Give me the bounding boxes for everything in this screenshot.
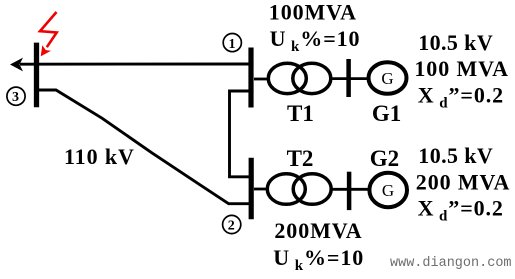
svg-text:T2: T2 bbox=[287, 146, 314, 171]
busbar 1 bbox=[248, 48, 253, 108]
svg-text:G2: G2 bbox=[370, 146, 399, 171]
busbar 3 (faulted 110kV bus) bbox=[34, 43, 39, 108]
svg-text:1: 1 bbox=[229, 37, 237, 52]
svg-text:100 MVA: 100 MVA bbox=[414, 56, 509, 81]
svg-text:10.5 kV: 10.5 kV bbox=[418, 143, 493, 168]
generator G2 bbox=[369, 173, 407, 207]
svg-text:X d”=0.2: X d”=0.2 bbox=[418, 196, 504, 225]
wire: 110 kV line bus 3 to bus 2 (stub, diagonal, stub) bbox=[36, 90, 250, 204]
svg-text:T1: T1 bbox=[287, 101, 314, 126]
wire: transformer T2 to generator G2 bbox=[331, 188, 368, 191]
generator bus bar G1 bbox=[346, 59, 351, 97]
svg-text:G1: G1 bbox=[372, 101, 401, 126]
node 1 circled label bbox=[223, 34, 241, 52]
svg-text:200MVA: 200MVA bbox=[274, 218, 362, 243]
node 2 circled label bbox=[223, 215, 241, 233]
generator G1 bbox=[369, 62, 407, 94]
fault lightning bolt with arrow bbox=[40, 12, 57, 56]
busbar 2 bbox=[249, 158, 254, 220]
wire: bus 2 to transformer T2 bbox=[254, 188, 268, 191]
svg-text:100MVA: 100MVA bbox=[269, 0, 357, 25]
svg-text:G: G bbox=[381, 69, 393, 88]
svg-text:U k%=10: U k%=10 bbox=[270, 26, 361, 55]
wire: tie link between bus 1 and bus 2 bbox=[230, 91, 251, 177]
svg-text:200 MVA: 200 MVA bbox=[416, 170, 511, 195]
svg-text:2: 2 bbox=[228, 219, 236, 234]
node 3 circled label bbox=[7, 87, 25, 105]
svg-text:www.diangon.com: www.diangon.com bbox=[390, 256, 512, 271]
wire: line from bus 3 with left arrow to bus 1 bbox=[10, 58, 250, 72]
transformer T2 bbox=[267, 174, 331, 205]
transformer T1 bbox=[268, 63, 331, 93]
svg-text:U k%=10: U k%=10 bbox=[273, 245, 364, 274]
wire: transformer T1 to generator G1 bbox=[331, 77, 368, 80]
generator bus bar G2 bbox=[347, 172, 352, 210]
svg-text:X d”=0.2: X d”=0.2 bbox=[418, 83, 504, 112]
svg-text:10.5 kV: 10.5 kV bbox=[418, 30, 493, 55]
svg-text:3: 3 bbox=[12, 90, 20, 105]
wire: bus 1 to transformer T1 bbox=[254, 78, 270, 81]
svg-text:G: G bbox=[382, 181, 394, 200]
svg-text:110 kV: 110 kV bbox=[64, 144, 135, 169]
